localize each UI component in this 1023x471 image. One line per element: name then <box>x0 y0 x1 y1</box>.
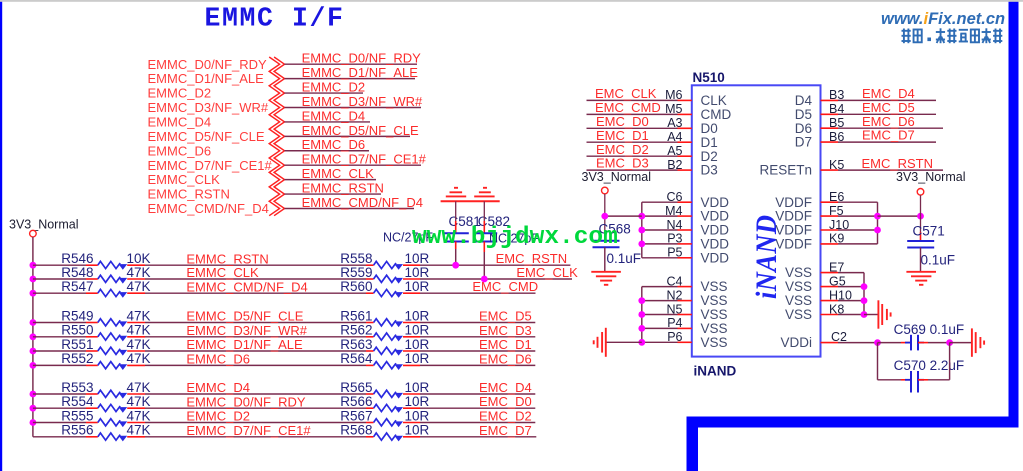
pin E7 VSS <box>821 272 839 274</box>
svg-text:P3: P3 <box>667 232 682 246</box>
wire to right ground <box>950 342 972 344</box>
pin H10 VSS <box>821 300 839 302</box>
svg-text:R560: R560 <box>340 279 372 294</box>
wire <box>285 208 415 210</box>
resistor R563 10R <box>366 350 374 352</box>
node EMC_CMD / pin M5 CMD <box>587 113 678 115</box>
svg-text:EMC_D7: EMC_D7 <box>862 128 915 143</box>
svg-text:VDDi: VDDi <box>780 335 812 350</box>
svg-text:R551: R551 <box>61 337 93 352</box>
svg-text:VSS: VSS <box>785 293 812 308</box>
node EMMC_D7/NF_CE1# <box>145 436 366 438</box>
svg-text:D6: D6 <box>795 121 812 136</box>
svg-text:10R: 10R <box>405 251 430 266</box>
svg-text:D1: D1 <box>701 135 718 150</box>
svg-text:R559: R559 <box>340 265 372 280</box>
svg-text:3V3_Normal: 3V3_Normal <box>9 218 78 232</box>
svg-text:EMMC_D3/NF_WR#: EMMC_D3/NF_WR# <box>148 100 269 115</box>
svg-text:M4: M4 <box>665 204 682 218</box>
svg-text:10R: 10R <box>405 394 430 409</box>
svg-text:EMC_CLK: EMC_CLK <box>595 86 657 101</box>
wire <box>285 150 370 152</box>
ground (right) for VSS <box>864 314 878 316</box>
pin N4 VDD <box>642 229 678 231</box>
wire <box>285 78 416 80</box>
left sheet border <box>0 0 2 471</box>
svg-text:VSS: VSS <box>701 279 728 294</box>
svg-text:EMMC_CLK: EMMC_CLK <box>148 172 221 187</box>
resistor R555 47K row <box>30 419 37 426</box>
svg-text:0.1uF: 0.1uF <box>607 251 642 266</box>
svg-text:R549: R549 <box>61 308 93 323</box>
svg-text:EMC_D5: EMC_D5 <box>862 100 915 115</box>
svg-text:K5: K5 <box>829 158 844 172</box>
resistor R565 10R <box>366 393 374 395</box>
svg-text:R562: R562 <box>340 323 372 338</box>
svg-text:EMMC_D2: EMMC_D2 <box>186 409 250 424</box>
node EMC_D3 / pin B2 D3 <box>587 169 678 171</box>
svg-text:EMMC_RSTN: EMMC_RSTN <box>186 251 268 266</box>
svg-text:47K: 47K <box>127 380 151 395</box>
svg-text:EMC_D4: EMC_D4 <box>479 380 532 395</box>
svg-text:C571: C571 <box>913 223 945 238</box>
svg-text:EMC_D5: EMC_D5 <box>479 309 532 324</box>
wire VSS right bus <box>863 273 865 315</box>
svg-text:R566: R566 <box>340 394 372 409</box>
svg-text:R564: R564 <box>340 351 373 366</box>
svg-text:G5: G5 <box>829 274 846 288</box>
svg-text:R555: R555 <box>61 408 93 423</box>
pin P4 VSS <box>642 327 678 329</box>
wire VDDF to 3V3/C571 <box>878 215 921 217</box>
pin C6 VDD <box>642 201 678 203</box>
svg-text:N4: N4 <box>667 218 683 232</box>
resistor R567 10R <box>366 422 374 424</box>
svg-text:EMC_D6: EMC_D6 <box>479 351 532 366</box>
node EMC_D6 <box>420 364 535 366</box>
svg-text:VSS: VSS <box>701 293 728 308</box>
svg-text:VSS: VSS <box>785 307 812 322</box>
svg-text:B3: B3 <box>829 88 844 102</box>
svg-text:VDD: VDD <box>701 195 730 210</box>
svg-text:EMMC_CMD/NF_D4: EMMC_CMD/NF_D4 <box>148 201 269 216</box>
svg-text:EMMC_D0/NF_RDY: EMMC_D0/NF_RDY <box>148 57 268 72</box>
svg-text:10R: 10R <box>405 351 430 366</box>
svg-text:D4: D4 <box>795 93 813 108</box>
pin F5 VDDF <box>821 215 839 217</box>
wire <box>285 135 411 137</box>
node EMC_D4 / pin B3 D4 <box>821 99 839 101</box>
svg-text:EMMC_D5/NF_CLE: EMMC_D5/NF_CLE <box>148 129 265 144</box>
svg-text:VDD: VDD <box>701 209 730 224</box>
svg-text:EMMC_CLK: EMMC_CLK <box>302 166 375 181</box>
svg-text:47K: 47K <box>127 337 151 352</box>
resistor R549 47K row <box>30 319 37 326</box>
svg-text:EMC_D0: EMC_D0 <box>479 394 532 409</box>
svg-text:RESETn: RESETn <box>759 163 812 178</box>
svg-text:E7: E7 <box>829 260 844 274</box>
svg-text:VSS: VSS <box>701 335 728 350</box>
svg-text:M5: M5 <box>665 102 682 116</box>
svg-text:VSS: VSS <box>701 307 728 322</box>
svg-text:R563: R563 <box>340 337 372 352</box>
svg-text:EMMC_D4: EMMC_D4 <box>148 115 212 130</box>
svg-text:A3: A3 <box>667 116 682 130</box>
svg-text:B5: B5 <box>829 116 844 130</box>
node EMMC_D4 <box>145 393 366 395</box>
svg-text:E6: E6 <box>829 190 844 204</box>
svg-text:D2: D2 <box>701 149 718 164</box>
resistor R548 47K row <box>30 276 37 283</box>
svg-text:VDDF: VDDF <box>775 195 812 210</box>
svg-text:C569 0.1uF: C569 0.1uF <box>894 322 965 337</box>
svg-text:EMC_RSTN: EMC_RSTN <box>496 251 568 266</box>
node EMC_D4 <box>420 393 535 395</box>
svg-text:iNAND: iNAND <box>694 364 737 379</box>
svg-text:EMC_CLK: EMC_CLK <box>516 265 578 280</box>
node EMC_RSTN <box>420 264 570 266</box>
svg-text:EMC_CMD: EMC_CMD <box>595 100 661 115</box>
svg-text:A5: A5 <box>667 144 682 158</box>
svg-text:EMC_D0: EMC_D0 <box>596 114 649 129</box>
wire <box>285 164 422 166</box>
svg-text:B6: B6 <box>829 130 844 144</box>
pin J10 VDDF <box>821 229 839 231</box>
capacitor C571 0.1uF <box>920 216 922 232</box>
svg-text:P5: P5 <box>667 246 682 260</box>
pin N5 VSS <box>642 314 678 316</box>
node EMMC_D5/NF_CLE <box>145 322 366 324</box>
svg-text:EMMC_CMD/NF_D4: EMMC_CMD/NF_D4 <box>302 195 423 210</box>
svg-text:VDD: VDD <box>701 237 730 252</box>
svg-text:VDDF: VDDF <box>775 223 812 238</box>
wire <box>285 106 422 108</box>
svg-text:EMC_D3: EMC_D3 <box>479 323 532 338</box>
node EMC_CMD <box>420 292 536 294</box>
svg-text:D7: D7 <box>795 135 812 150</box>
svg-text:VSS: VSS <box>701 321 728 336</box>
resistor R552 47K row <box>30 362 37 369</box>
right sheet border (thick blue bar) <box>1009 0 1019 428</box>
resistor R566 10R <box>366 407 374 409</box>
svg-text:M6: M6 <box>665 88 682 102</box>
wire VDDF bus <box>877 202 879 244</box>
svg-text:10R: 10R <box>405 265 430 280</box>
ground below C568 <box>591 272 621 285</box>
svg-text:47K: 47K <box>127 394 151 409</box>
wire C581 to EMC_RSTN <box>455 242 457 250</box>
node EMC_D7 <box>420 436 536 438</box>
svg-text:P6: P6 <box>667 330 682 344</box>
svg-text:47K: 47K <box>127 323 151 338</box>
svg-text:R567: R567 <box>340 408 372 423</box>
pin P5 VDD <box>642 257 678 259</box>
svg-text:R550: R550 <box>61 323 93 338</box>
svg-text:D3: D3 <box>701 163 718 178</box>
node EMC_D5 <box>420 322 535 324</box>
node EMC_D2 <box>420 422 535 424</box>
node EMMC_D0/NF_RDY <box>145 407 366 409</box>
svg-text:C570 2.2uF: C570 2.2uF <box>894 358 965 373</box>
svg-text:0.1uF: 0.1uF <box>921 253 956 268</box>
svg-text:R548: R548 <box>61 265 93 280</box>
pin E6 VDDF <box>821 201 839 203</box>
svg-text:VDDF: VDDF <box>775 237 812 252</box>
pin K8 VSS <box>821 314 839 316</box>
resistor R554 47K row <box>30 405 37 412</box>
svg-text:10R: 10R <box>405 323 430 338</box>
svg-text:R568: R568 <box>340 423 372 438</box>
svg-text:K8: K8 <box>829 302 844 316</box>
svg-text:R553: R553 <box>61 380 93 395</box>
svg-text:47K: 47K <box>127 351 151 366</box>
svg-text:10R: 10R <box>405 408 430 423</box>
svg-text:VDD: VDD <box>701 250 730 265</box>
svg-text:EMMC_D5/NF_CLE: EMMC_D5/NF_CLE <box>302 123 419 138</box>
node EMC_D2 / pin A5 D2 <box>587 155 678 157</box>
svg-text:N510: N510 <box>693 70 725 85</box>
svg-text:10R: 10R <box>405 308 430 323</box>
pin P3 VDD <box>642 243 678 245</box>
pin N2 VSS <box>642 300 678 302</box>
resistor R556 47K row <box>33 436 86 438</box>
resistor R560 10R <box>366 292 374 294</box>
ground (inverted) above C581/C582 <box>441 200 500 202</box>
svg-text:VDD: VDD <box>701 223 730 238</box>
resistor R551 47K row <box>30 348 37 355</box>
node EMC_RSTN / pin K5 RESETn <box>821 169 839 171</box>
svg-text:EMC_D7: EMC_D7 <box>479 423 532 438</box>
watermark chinese slogan <box>902 29 911 44</box>
resistor R564 10R <box>366 364 374 366</box>
svg-text:10R: 10R <box>405 279 430 294</box>
svg-text:EMMC_D4: EMMC_D4 <box>186 380 250 395</box>
svg-text:R547: R547 <box>61 279 93 294</box>
resistor R561 10R <box>366 322 374 324</box>
ground below C571 <box>906 272 936 285</box>
svg-text:N2: N2 <box>667 288 683 302</box>
svg-text:EMMC I/F: EMMC I/F <box>205 4 345 34</box>
node EMC_D1 <box>420 350 535 352</box>
node EMMC_D2 <box>145 422 366 424</box>
svg-text:EMMC_D2: EMMC_D2 <box>148 86 212 101</box>
svg-text:B4: B4 <box>829 102 844 116</box>
svg-text:EMMC_D1/NF_ALE: EMMC_D1/NF_ALE <box>148 71 265 86</box>
bottom-right thick blue frame horizontal <box>687 417 1019 428</box>
svg-text:D0: D0 <box>701 121 718 136</box>
svg-text:EMC_D2: EMC_D2 <box>596 142 649 157</box>
wire <box>285 193 382 195</box>
node EMC_D0 / pin A3 D0 <box>587 127 678 129</box>
node EMC_D3 <box>420 336 535 338</box>
svg-text:EMMC_RSTN: EMMC_RSTN <box>302 180 384 195</box>
ground (left) for VSS <box>606 341 642 343</box>
svg-text:R558: R558 <box>340 251 372 266</box>
bottom-right thick blue frame vertical leg <box>687 417 699 471</box>
svg-text:EMMC_D2: EMMC_D2 <box>302 79 366 94</box>
svg-text:J10: J10 <box>829 218 849 232</box>
svg-text:F5: F5 <box>829 204 844 218</box>
svg-text:VSS: VSS <box>785 265 812 280</box>
svg-text:www.iFix.net.cn: www.iFix.net.cn <box>881 10 1005 28</box>
svg-text:EMMC_D1/NF_ALE: EMMC_D1/NF_ALE <box>302 65 419 80</box>
svg-text:VDDF: VDDF <box>775 209 812 224</box>
node EMC_CLK / pin M6 CLK <box>587 99 678 101</box>
svg-text:47K: 47K <box>127 423 151 438</box>
svg-text:CLK: CLK <box>701 93 727 108</box>
off-page connector chevron chain <box>269 57 279 216</box>
node EMC_D7 / pin B6 D7 <box>821 141 839 143</box>
pin K9 VDDF <box>821 243 839 245</box>
svg-text:R546: R546 <box>61 251 93 266</box>
svg-text:10K: 10K <box>127 251 151 266</box>
resistor R559 10R <box>366 278 374 280</box>
node EMMC_D1/NF_ALE <box>145 350 366 352</box>
wire 3V3 to VDD bus and C568 <box>604 194 606 232</box>
svg-text:EMMC_RSTN: EMMC_RSTN <box>148 187 230 202</box>
svg-text:EMMC_D6: EMMC_D6 <box>186 352 250 367</box>
svg-text:EMMC_D4: EMMC_D4 <box>302 108 366 123</box>
svg-text:EMMC_D6: EMMC_D6 <box>148 143 212 158</box>
node VDDi / pin C2 <box>821 342 839 344</box>
wire VDD bus <box>641 202 643 258</box>
wire <box>285 92 364 94</box>
svg-text:EMMC_D7/NF_CE1#: EMMC_D7/NF_CE1# <box>302 152 427 167</box>
pin G5 VSS <box>821 286 839 288</box>
resistor R553 47K row <box>30 391 37 398</box>
svg-text:R561: R561 <box>340 308 372 323</box>
svg-text:K9: K9 <box>829 232 844 246</box>
svg-text:EMC_D6: EMC_D6 <box>862 114 915 129</box>
svg-text:CMD: CMD <box>701 107 732 122</box>
node EMMC_CMD/NF_D4 <box>145 292 366 294</box>
node EMC_D1 / pin A4 D1 <box>587 141 678 143</box>
svg-text:47K: 47K <box>127 279 151 294</box>
svg-text:C2: C2 <box>831 330 847 344</box>
node EMMC_RSTN <box>145 264 366 266</box>
svg-text:10R: 10R <box>405 337 430 352</box>
svg-text:10R: 10R <box>405 423 430 438</box>
svg-text:R565: R565 <box>340 380 372 395</box>
resistor R562 10R <box>366 336 374 338</box>
pin C4 VSS <box>642 286 678 288</box>
svg-text:EMMC_CLK: EMMC_CLK <box>186 265 259 280</box>
svg-text:A4: A4 <box>667 130 682 144</box>
resistor R550 47K row <box>30 333 37 340</box>
node EMC_D6 / pin B5 D6 <box>821 127 839 129</box>
svg-text:EMMC_D3/NF_WR#: EMMC_D3/NF_WR# <box>186 323 307 338</box>
svg-text:EMMC_D1/NF_ALE: EMMC_D1/NF_ALE <box>186 337 303 352</box>
pin P6 VSS <box>642 341 678 343</box>
svg-text:47K: 47K <box>127 265 151 280</box>
svg-text:R556: R556 <box>61 423 93 438</box>
svg-text:EMMC_D6: EMMC_D6 <box>302 137 366 152</box>
svg-text:EMMC_D7/NF_CE1#: EMMC_D7/NF_CE1# <box>186 423 311 438</box>
resistor R558 10R <box>366 264 374 266</box>
resistor R546 10K row <box>30 262 37 269</box>
svg-text:C4: C4 <box>667 274 683 288</box>
svg-text:EMMC_D5/NF_CLE: EMMC_D5/NF_CLE <box>186 309 303 324</box>
wire <box>285 121 371 123</box>
svg-text:3V3_Normal: 3V3_Normal <box>582 170 651 184</box>
svg-text:EMMC_D3/NF_WR#: EMMC_D3/NF_WR# <box>302 94 423 109</box>
svg-text:B2: B2 <box>667 158 682 172</box>
svg-text:P4: P4 <box>667 316 682 330</box>
svg-text:D5: D5 <box>795 107 812 122</box>
svg-text:H10: H10 <box>829 288 852 302</box>
svg-text:EMMC_D7/NF_CE1#: EMMC_D7/NF_CE1# <box>148 158 273 173</box>
node EMC_CLK <box>420 278 572 280</box>
svg-text:EMMC_CMD/NF_D4: EMMC_CMD/NF_D4 <box>186 279 307 294</box>
svg-text:VSS: VSS <box>785 279 812 294</box>
svg-text:N5: N5 <box>667 302 683 316</box>
wire 3V3 rail <box>32 237 34 437</box>
node EMC_D5 / pin B4 D5 <box>821 113 839 115</box>
resistor R568 10R <box>366 436 374 438</box>
node EMMC_CLK <box>145 278 366 280</box>
svg-text:EMC_RSTN: EMC_RSTN <box>862 156 934 171</box>
IC N510 iNAND chip body <box>692 85 821 356</box>
svg-text:EMC_D2: EMC_D2 <box>479 409 532 424</box>
node EMMC_D3/NF_WR# <box>145 336 366 338</box>
svg-text:C6: C6 <box>667 190 683 204</box>
svg-text:3V3_Normal: 3V3_Normal <box>896 170 965 184</box>
svg-text:10R: 10R <box>405 380 430 395</box>
svg-text:47K: 47K <box>127 308 151 323</box>
node EMMC_D6 <box>145 364 366 366</box>
top gray edge <box>0 0 1023 2</box>
wire VSS bus <box>641 287 643 343</box>
wire <box>285 63 418 65</box>
pin M4 VDD <box>642 215 678 217</box>
svg-text:R552: R552 <box>61 351 93 366</box>
wire C582 to EMC_CLK <box>483 242 485 253</box>
svg-text:EMC_D1: EMC_D1 <box>596 128 649 143</box>
svg-text:EMC_D4: EMC_D4 <box>862 86 915 101</box>
svg-text:EMMC_D0/NF_RDY: EMMC_D0/NF_RDY <box>302 51 422 66</box>
svg-text:EMMC_D0/NF_RDY: EMMC_D0/NF_RDY <box>186 394 306 409</box>
wire <box>285 179 377 181</box>
svg-text:47K: 47K <box>127 408 151 423</box>
svg-text:EMC_D1: EMC_D1 <box>479 337 532 352</box>
node EMC_D0 <box>420 407 535 409</box>
svg-text:EMC_D3: EMC_D3 <box>596 156 649 171</box>
svg-text:R554: R554 <box>61 394 94 409</box>
resistor R547 47K row <box>30 290 37 297</box>
svg-text:www.bjjdwx.com: www.bjjdwx.com <box>412 224 618 251</box>
